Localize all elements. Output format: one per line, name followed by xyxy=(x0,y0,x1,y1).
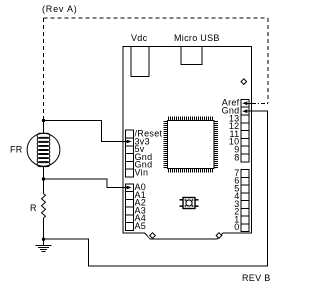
svg-text:R: R xyxy=(30,203,37,213)
svg-text:Micro USB: Micro USB xyxy=(174,33,220,43)
svg-text:(Rev A): (Rev A) xyxy=(42,4,78,14)
svg-text:Vin: Vin xyxy=(135,168,149,178)
svg-text:Vdc: Vdc xyxy=(131,33,148,43)
svg-text:FR: FR xyxy=(10,145,23,155)
svg-text:0: 0 xyxy=(234,222,239,232)
svg-text:A5: A5 xyxy=(135,221,147,231)
svg-text:8: 8 xyxy=(234,152,239,162)
svg-text:REV B: REV B xyxy=(242,273,271,283)
